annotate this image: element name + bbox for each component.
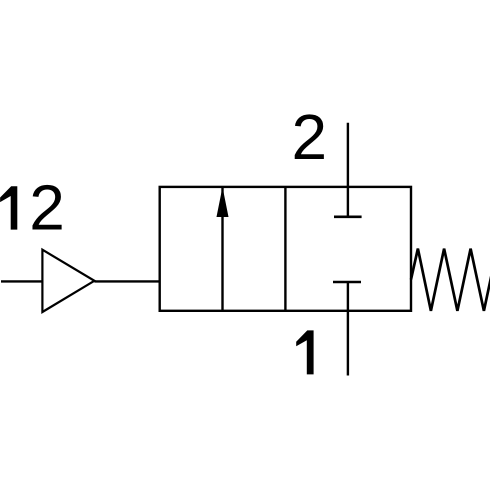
svg-text:2: 2 (292, 101, 328, 173)
wire: port 1 line (347, 282, 349, 376)
return spring (411, 249, 490, 311)
valve position divider (284, 187, 286, 311)
blocked port symbol bottom (right square) (333, 281, 361, 284)
wire: pilot input line (left segment) (1, 280, 42, 282)
flow path line (left square) (221, 187, 223, 311)
wire: port 2 line (347, 123, 349, 217)
wire: pilot line to valve body (94, 280, 159, 282)
label 1 (296, 330, 313, 374)
blocked port symbol top (right square) (334, 216, 362, 219)
valve body outline (two-position box) (160, 187, 411, 311)
label 12 : digit 1 (0, 186, 17, 229)
pilot actuator triangle (port 12) (42, 250, 94, 312)
svg-text:2: 2 (29, 172, 65, 244)
flow path arrowhead (217, 190, 228, 217)
